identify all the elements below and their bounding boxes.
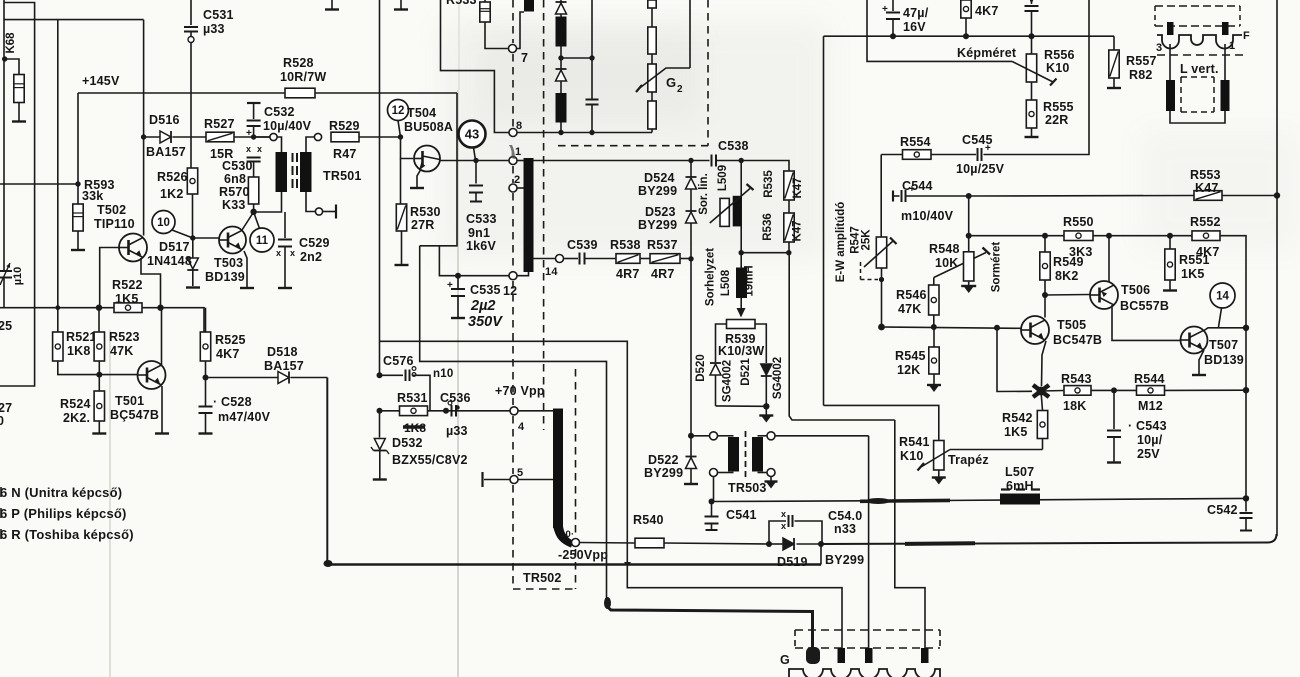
svg-text:2n2: 2n2 [300, 250, 322, 264]
node junction [739, 158, 744, 163]
svg-text:BÇ547B: BÇ547B [110, 408, 159, 422]
svg-text:R549: R549 [1053, 255, 1084, 269]
svg-text:SG4002: SG4002 [772, 357, 784, 399]
svg-text:2: 2 [514, 174, 520, 186]
svg-text:T502: T502 [97, 203, 126, 217]
svg-text:C535: C535 [470, 283, 501, 297]
capacitor C528 [205, 378, 207, 406]
resistor R523 [98, 308, 100, 332]
transistor T507 [1181, 327, 1208, 354]
node 43 circle [459, 121, 486, 148]
capacitor C531 [190, 0, 192, 25]
resistor R537 [650, 254, 680, 264]
svg-text:R548: R548 [929, 242, 960, 256]
svg-text:x: x [781, 509, 786, 519]
node junction [931, 324, 937, 330]
wire pin12 line [439, 246, 509, 276]
shield dashed x708 [707, 0, 709, 146]
shield dashed x575 [575, 369, 577, 536]
wire node11 tick [254, 212, 260, 229]
wire R547 top [880, 155, 882, 238]
diode D518 [278, 372, 289, 384]
svg-text:· C528: · C528 [213, 395, 252, 409]
wire T507 collector [1204, 328, 1246, 331]
svg-text:T505: T505 [1057, 318, 1086, 332]
wire D516-R527 [173, 136, 207, 138]
connector dashed left [794, 630, 796, 648]
node junction [157, 305, 163, 311]
svg-text:BY299: BY299 [644, 466, 683, 480]
wire T506 emitter feed [1108, 236, 1110, 282]
node 12 circle [388, 100, 409, 121]
svg-text:+: + [447, 280, 453, 291]
svg-text:L508: L508 [720, 269, 732, 296]
wire T505 collector [1044, 295, 1046, 318]
wire pin8 line [517, 132, 652, 134]
wire R542-R541 wiper [950, 449, 1043, 451]
terminal circle [767, 469, 775, 477]
svg-text:1K8: 1K8 [67, 344, 91, 358]
svg-text:K10: K10 [1046, 61, 1070, 75]
transformer TR502 secondary winding [553, 409, 563, 529]
wire left bus A [3, 0, 5, 267]
corner blob [324, 560, 333, 567]
capacitor C542 [1245, 498, 1247, 511]
wire line B [420, 246, 607, 600]
wire TR503 top right [775, 435, 869, 437]
svg-text:10R/7W: 10R/7W [280, 70, 326, 84]
svg-text:D524: D524 [644, 171, 675, 185]
wire to D516 [144, 136, 160, 138]
wire R540 out [664, 543, 769, 544]
svg-text:1k6V: 1k6V [466, 239, 496, 253]
resistor R546 [933, 278, 935, 286]
ground [186, 286, 200, 288]
wire x997 drop [997, 328, 1032, 392]
svg-text:R526: R526 [157, 170, 188, 184]
svg-text:47K: 47K [898, 302, 922, 316]
arrow L508 tap [737, 308, 746, 318]
svg-text:R537: R537 [647, 238, 678, 252]
transformer TR503 left winding [728, 437, 739, 472]
wire R554-C545 [931, 154, 976, 156]
wiper L509 [710, 189, 750, 224]
capacitor C532 [247, 102, 261, 104]
wire yoke bottom [1170, 111, 1225, 123]
wire R531-C536 [428, 410, 445, 412]
wire left bus A lower [3, 286, 5, 308]
wire heavy line y501 [712, 498, 1247, 501]
capacitor C540 loop [769, 521, 786, 544]
svg-text:R528: R528 [283, 56, 314, 70]
svg-text:6 P (Philips képcső): 6 P (Philips képcső) [0, 506, 127, 521]
node junction [558, 55, 563, 60]
svg-text:n33: n33 [834, 522, 856, 536]
wire R539 left leg [716, 324, 727, 362]
resistor G2 chain 1 [648, 0, 656, 8]
winding bar [556, 93, 567, 123]
svg-text:K47: K47 [1195, 181, 1219, 195]
wire +145V corner [77, 93, 79, 184]
svg-text:L509: L509 [717, 165, 729, 191]
svg-text:T504: T504 [407, 106, 436, 120]
diode D524 [686, 178, 697, 189]
wire T503 emitter [244, 251, 247, 287]
ground [1163, 289, 1177, 291]
resistor G2 chain 2 [648, 27, 656, 54]
transformer TR502 top winding [524, 0, 534, 12]
svg-text:+: + [985, 143, 991, 154]
svg-text:m47/40V: m47/40V [218, 410, 271, 424]
wire R537 out [680, 258, 691, 260]
svg-text:1K5: 1K5 [1181, 267, 1205, 281]
node junction [739, 250, 744, 255]
wire right rail [1276, 196, 1278, 537]
ground [92, 432, 106, 434]
wire diode chain [690, 161, 692, 178]
winding bar [556, 17, 567, 47]
wiper R541 [921, 450, 950, 468]
svg-text:x: x [290, 248, 295, 258]
ground [71, 249, 85, 251]
wire sec bottom [306, 192, 315, 212]
svg-text:TR501: TR501 [323, 169, 362, 183]
svg-text:+: + [882, 4, 888, 15]
svg-text:BD139: BD139 [1204, 353, 1244, 367]
node junction [1167, 233, 1173, 239]
svg-text:8K2: 8K2 [1055, 269, 1079, 283]
svg-text:6 N (Unitra képcső): 6 N (Unitra képcső) [0, 485, 122, 500]
svg-text:T507: T507 [1209, 338, 1238, 352]
wire main line mid [534, 160, 710, 162]
resistor R542 [1041, 391, 1043, 411]
wire pin7 step [517, 12, 525, 49]
wire thick bottom horizontal [326, 563, 821, 565]
wire R531 left [380, 410, 400, 412]
svg-text:R541: R541 [899, 435, 930, 449]
svg-text:R523: R523 [109, 330, 140, 344]
node junction [1243, 387, 1249, 393]
capacitor trimmer u10 [3, 267, 5, 271]
wire right rail corner [1268, 534, 1277, 543]
svg-text:R530: R530 [410, 205, 441, 219]
node junction [994, 325, 1000, 331]
svg-text:1: 1 [515, 146, 521, 158]
svg-text:-250Vpp: -250Vpp [558, 548, 608, 562]
svg-text:10µ/40V: 10µ/40V [263, 119, 312, 133]
capacitor C544 [892, 191, 894, 202]
node junction [377, 408, 383, 414]
ground [199, 432, 213, 434]
inductor L507 dashes [1001, 488, 1043, 490]
potentiometer R556 [1026, 54, 1036, 82]
wire top feed [4, 19, 144, 21]
capacitor [586, 99, 599, 101]
svg-text:43: 43 [465, 127, 479, 142]
svg-text:R521: R521 [66, 330, 97, 344]
wire sec end [323, 211, 336, 213]
ground [684, 483, 698, 485]
resistor R551 [1169, 236, 1171, 249]
terminal circle [315, 208, 322, 215]
inductor L508 [740, 253, 742, 268]
svg-text:R553: R553 [1190, 168, 1221, 182]
node junction [377, 372, 383, 378]
wire C531 to R526 [190, 43, 192, 169]
wire Kepmeret branch [867, 0, 1012, 61]
wire T506 base [1045, 294, 1090, 297]
wire pin14 stub [534, 258, 556, 260]
terminal circle 8 [509, 129, 517, 137]
svg-text:BA157: BA157 [264, 359, 304, 373]
wire TR503 bottom left [713, 477, 715, 502]
resistor R535 [784, 171, 794, 200]
svg-text:µ33: µ33 [446, 424, 468, 438]
wire L508 top link [741, 252, 789, 254]
terminal circle [314, 133, 321, 140]
resistor R524 [98, 375, 100, 391]
connector dashed box bottom [795, 647, 940, 649]
svg-text:BY299: BY299 [638, 218, 677, 232]
resistor R539 [727, 320, 756, 329]
svg-text:M12: M12 [1138, 399, 1163, 413]
ground [331, 0, 333, 9]
svg-text:T506: T506 [1121, 283, 1150, 297]
resistor R528 [285, 88, 315, 98]
wire prim loop bottom [254, 192, 282, 212]
svg-text:C531: C531 [203, 8, 234, 22]
inductor L507 [1000, 494, 1040, 505]
resistor R550 [1064, 231, 1093, 241]
svg-text:1K2: 1K2 [160, 187, 184, 201]
node junction [55, 305, 60, 310]
node junction [688, 433, 694, 439]
terminal circle [710, 432, 718, 440]
node junction [688, 256, 693, 261]
wire yoke left [1169, 44, 1171, 80]
svg-text:25K: 25K [861, 229, 873, 251]
shield dashed x513 [512, 0, 514, 43]
wire right border [1276, 0, 1278, 196]
wire line A lower [627, 566, 842, 648]
svg-text:D516: D516 [149, 113, 180, 127]
svg-text:D519: D519 [777, 555, 808, 569]
resistor R548 [968, 196, 970, 252]
svg-text:BZX55/C8V2: BZX55/C8V2 [392, 453, 468, 467]
node junction [879, 277, 884, 282]
svg-text:BA157: BA157 [146, 145, 186, 159]
svg-text:11: 11 [256, 235, 269, 247]
node junction [96, 372, 102, 378]
wire node5 right [518, 479, 553, 481]
node junction [190, 235, 195, 240]
node junction [558, 130, 563, 135]
wire top rail y36 [824, 35, 1115, 37]
wire T502 emitter [141, 258, 161, 308]
resistor R570 [248, 177, 258, 204]
wire node14 stem [1219, 308, 1222, 327]
svg-text:8: 8 [516, 120, 522, 132]
wire D519 drop [820, 544, 822, 565]
svg-text:D521: D521 [740, 358, 752, 386]
node junction [1111, 387, 1117, 393]
svg-text:R555: R555 [1043, 100, 1074, 114]
svg-text:G: G [666, 75, 676, 90]
transformer TR502 primary winding [524, 158, 534, 272]
diode D5xx second [556, 70, 567, 81]
svg-text:4K7: 4K7 [975, 4, 999, 18]
connector pin 3 [865, 648, 873, 663]
svg-text:x: x [781, 521, 786, 531]
node junction [688, 158, 693, 163]
terminal circle 10 [572, 539, 580, 547]
resistor R522 [114, 303, 142, 313]
svg-text:L507: L507 [1005, 465, 1034, 479]
wire R536 drop [789, 253, 895, 420]
svg-text:R538: R538 [610, 238, 641, 252]
svg-text:R82: R82 [1129, 68, 1153, 82]
wire stub [718, 472, 734, 474]
svg-text:R533: R533 [446, 0, 477, 7]
node junction [1243, 325, 1249, 331]
wire R553 out [1222, 195, 1277, 197]
capacitor C541 [711, 502, 713, 516]
terminal circle 4 [510, 407, 518, 415]
svg-text:x: x [257, 144, 262, 154]
resistor R544 [1137, 386, 1165, 396]
transformer TR503 core [745, 431, 747, 477]
wire vertical x823 [823, 36, 825, 405]
wire T501 emitter [161, 386, 163, 433]
svg-text:12: 12 [503, 284, 517, 298]
svg-text:Trapéz: Trapéz [948, 453, 989, 467]
svg-text:350V: 350V [468, 314, 503, 330]
emitter node blob [1033, 385, 1049, 397]
node 14 circle small [556, 255, 564, 263]
corner blob [604, 597, 611, 609]
node junction [96, 305, 102, 311]
svg-text:D532: D532 [392, 436, 423, 450]
wire node5 left [484, 479, 510, 481]
svg-text:4: 4 [518, 421, 525, 433]
wiper dashes [860, 262, 862, 280]
wire R539 right leg [755, 324, 766, 363]
wire C539 line [564, 258, 579, 260]
svg-text:C530: C530 [222, 159, 253, 173]
svg-text:BY299: BY299 [825, 553, 864, 567]
svg-text:C529: C529 [299, 236, 330, 250]
wire T504 emitter [417, 169, 421, 187]
svg-text:T501: T501 [115, 394, 144, 408]
ground [927, 384, 941, 386]
svg-text:2µ2: 2µ2 [470, 298, 495, 314]
wire R529 right [359, 136, 401, 138]
wire main line right [716, 161, 789, 172]
svg-text:R544: R544 [1134, 372, 1165, 386]
connector dashed box top [795, 629, 940, 631]
wire stub [718, 435, 734, 437]
ground [961, 285, 976, 287]
resistor R530 [400, 159, 402, 205]
wire pin2 stub [517, 187, 524, 189]
connector housing scallops [789, 669, 940, 677]
capacitor C536 [451, 405, 453, 417]
wire pin4 route [895, 420, 925, 648]
terminal circle 5 [510, 476, 518, 484]
shield dashed bottom [513, 588, 576, 590]
svg-text:C539: C539 [567, 238, 598, 252]
svg-text:33k: 33k [82, 189, 103, 203]
wiper G2 [639, 68, 690, 89]
svg-text:R570: R570 [219, 185, 250, 199]
wire node4 line [444, 410, 510, 412]
svg-text:D518: D518 [267, 345, 298, 359]
diode D532 zener [379, 411, 381, 438]
svg-text:7: 7 [521, 51, 528, 65]
resistor R526 [187, 168, 197, 194]
svg-text:16V: 16V [903, 20, 926, 34]
svg-text:R557: R557 [1126, 54, 1157, 68]
ground [1025, 136, 1039, 138]
wire sec top [306, 137, 314, 152]
node 11 circle [250, 228, 274, 252]
svg-text:1K5: 1K5 [115, 292, 139, 306]
transistor T506 [1090, 281, 1118, 309]
wire R544 out [1165, 389, 1247, 391]
svg-text:n10: n10 [433, 368, 453, 380]
coil L-vert right [1221, 80, 1230, 111]
svg-text:R554: R554 [900, 135, 931, 149]
ground [155, 432, 169, 434]
node junction [589, 130, 594, 135]
svg-text:D523: D523 [645, 205, 676, 219]
wiper R547 [864, 241, 893, 267]
node junction [443, 408, 449, 414]
svg-text:C536: C536 [440, 391, 471, 405]
wire node43 tick [474, 148, 476, 161]
wire Kepmeret return [881, 154, 902, 156]
wire T504 base drop [401, 137, 414, 159]
ground [12, 120, 26, 122]
terminal circle [767, 432, 775, 440]
svg-text:2K2.: 2K2. [63, 411, 90, 425]
diode D516 [160, 131, 171, 143]
svg-text:· C543: · C543 [1128, 419, 1167, 433]
wire node8 feed [441, 0, 510, 133]
svg-text:R527: R527 [204, 117, 235, 131]
wire [560, 123, 562, 133]
capacitor C545 [977, 148, 979, 161]
wire T501 collector [161, 308, 163, 365]
ground [373, 478, 387, 480]
svg-text:K68: K68 [5, 32, 17, 54]
wire R550 out [1093, 235, 1192, 237]
svg-text:47K: 47K [110, 344, 134, 358]
wire T502 collector riser [143, 20, 145, 236]
diode D520 [710, 364, 721, 375]
svg-text:TIP110: TIP110 [94, 217, 135, 231]
ground [1107, 461, 1121, 463]
terminal circle [270, 133, 277, 140]
svg-text:R552: R552 [1190, 215, 1221, 229]
wire T502 base [100, 248, 119, 308]
svg-text:R524: R524 [60, 397, 91, 411]
transistor T501 [138, 361, 166, 389]
wire thick bottom [326, 378, 328, 564]
node junction [2, 56, 7, 61]
ground [451, 317, 465, 319]
transistor T503 [219, 227, 246, 254]
